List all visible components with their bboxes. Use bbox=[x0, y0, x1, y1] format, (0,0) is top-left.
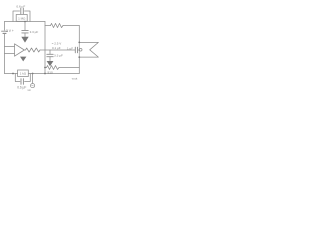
capacitor C5 right stub bbox=[25, 74, 31, 82]
svg-text:3 V +: 3 V + bbox=[6, 29, 14, 33]
svg-text:510: 510 bbox=[48, 71, 54, 75]
wire 510 row left bbox=[45, 67, 47, 69]
wire left rail upper bbox=[4, 22, 6, 31]
capacitor C2 lower stem bbox=[24, 33, 26, 37]
op-amp U1 bbox=[15, 44, 25, 56]
wire center vertical bbox=[44, 22, 46, 74]
wire output horizontal bbox=[40, 49, 75, 51]
wire to right rail bbox=[63, 25, 79, 27]
capacitor C3 lower stem bbox=[49, 57, 51, 61]
wire 510 row right bbox=[59, 67, 79, 69]
capacitor C5 left stub bbox=[15, 74, 20, 82]
wire right rail vertical bbox=[78, 26, 80, 74]
junction dot horn bottom bbox=[78, 56, 80, 58]
wire bottom horizontal bbox=[5, 73, 80, 75]
junction dot source bbox=[32, 73, 34, 75]
capacitor C3 stem from output wire bbox=[49, 50, 51, 54]
svg-text:0.1 μF: 0.1 μF bbox=[52, 46, 61, 50]
resistor R4 510 zigzag bbox=[47, 66, 60, 70]
resistor R1 (top, unlabeled zigzag) bbox=[51, 23, 64, 27]
capacitor C2 plates bbox=[22, 29, 28, 31]
signal source V1 bbox=[30, 74, 34, 88]
svg-text:3.3 μF: 3.3 μF bbox=[30, 30, 39, 34]
ground arrow G3 bbox=[47, 61, 54, 66]
svg-text:1 μF: 1 μF bbox=[67, 47, 73, 51]
junction dot mid 510 bbox=[44, 67, 46, 69]
svg-text:νin: νin bbox=[28, 88, 32, 92]
wire upper-right horizontal bbox=[45, 25, 51, 27]
svg-text:νout: νout bbox=[72, 77, 78, 81]
wire left rail lower bbox=[4, 33, 6, 73]
wire cap to right rail bbox=[78, 49, 79, 51]
resistor R3 output zigzag bbox=[24, 48, 40, 52]
resistor R2 1 Mohm box bbox=[16, 15, 27, 22]
capacitor C4 plates (series 0.1uF) bbox=[74, 47, 76, 53]
wire top horizontal bbox=[5, 21, 46, 23]
junction dot horn top bbox=[78, 42, 80, 44]
junction dot mid bottom bbox=[44, 73, 46, 75]
capacitor C1 plates bbox=[20, 8, 22, 14]
svg-text:3.3 μF: 3.3 μF bbox=[54, 54, 63, 58]
earphone LS1 horn bbox=[79, 42, 98, 57]
svg-text:1 MΩ: 1 MΩ bbox=[18, 16, 26, 20]
capacitor C1 top feedback: left stub bbox=[13, 11, 20, 22]
junction dot C2 tap bbox=[24, 21, 26, 23]
ground arrow G1 bbox=[21, 37, 28, 43]
battery B1 3V bbox=[2, 30, 8, 32]
svg-text:1 kΩ: 1 kΩ bbox=[20, 72, 27, 76]
capacitor C2 3.3uF stem from top wire bbox=[24, 22, 26, 31]
capacitor C5 plates bbox=[20, 79, 22, 85]
svg-text:0.6 μF: 0.6 μF bbox=[16, 4, 25, 8]
junction dot bottom left bbox=[12, 73, 14, 75]
ground arrow G2 below op-amp bbox=[20, 57, 26, 62]
resistor R5 1 kohm box (bottom) bbox=[18, 70, 29, 77]
svg-text:≈ 2.5 V: ≈ 2.5 V bbox=[52, 41, 62, 45]
capacitor C1 right stub bbox=[25, 11, 31, 22]
svg-text:0.6 μF: 0.6 μF bbox=[17, 85, 26, 89]
wire op-amp input + bbox=[5, 46, 15, 48]
wire op-amp input - bbox=[5, 53, 15, 55]
capacitor C3 plates bbox=[47, 53, 53, 55]
